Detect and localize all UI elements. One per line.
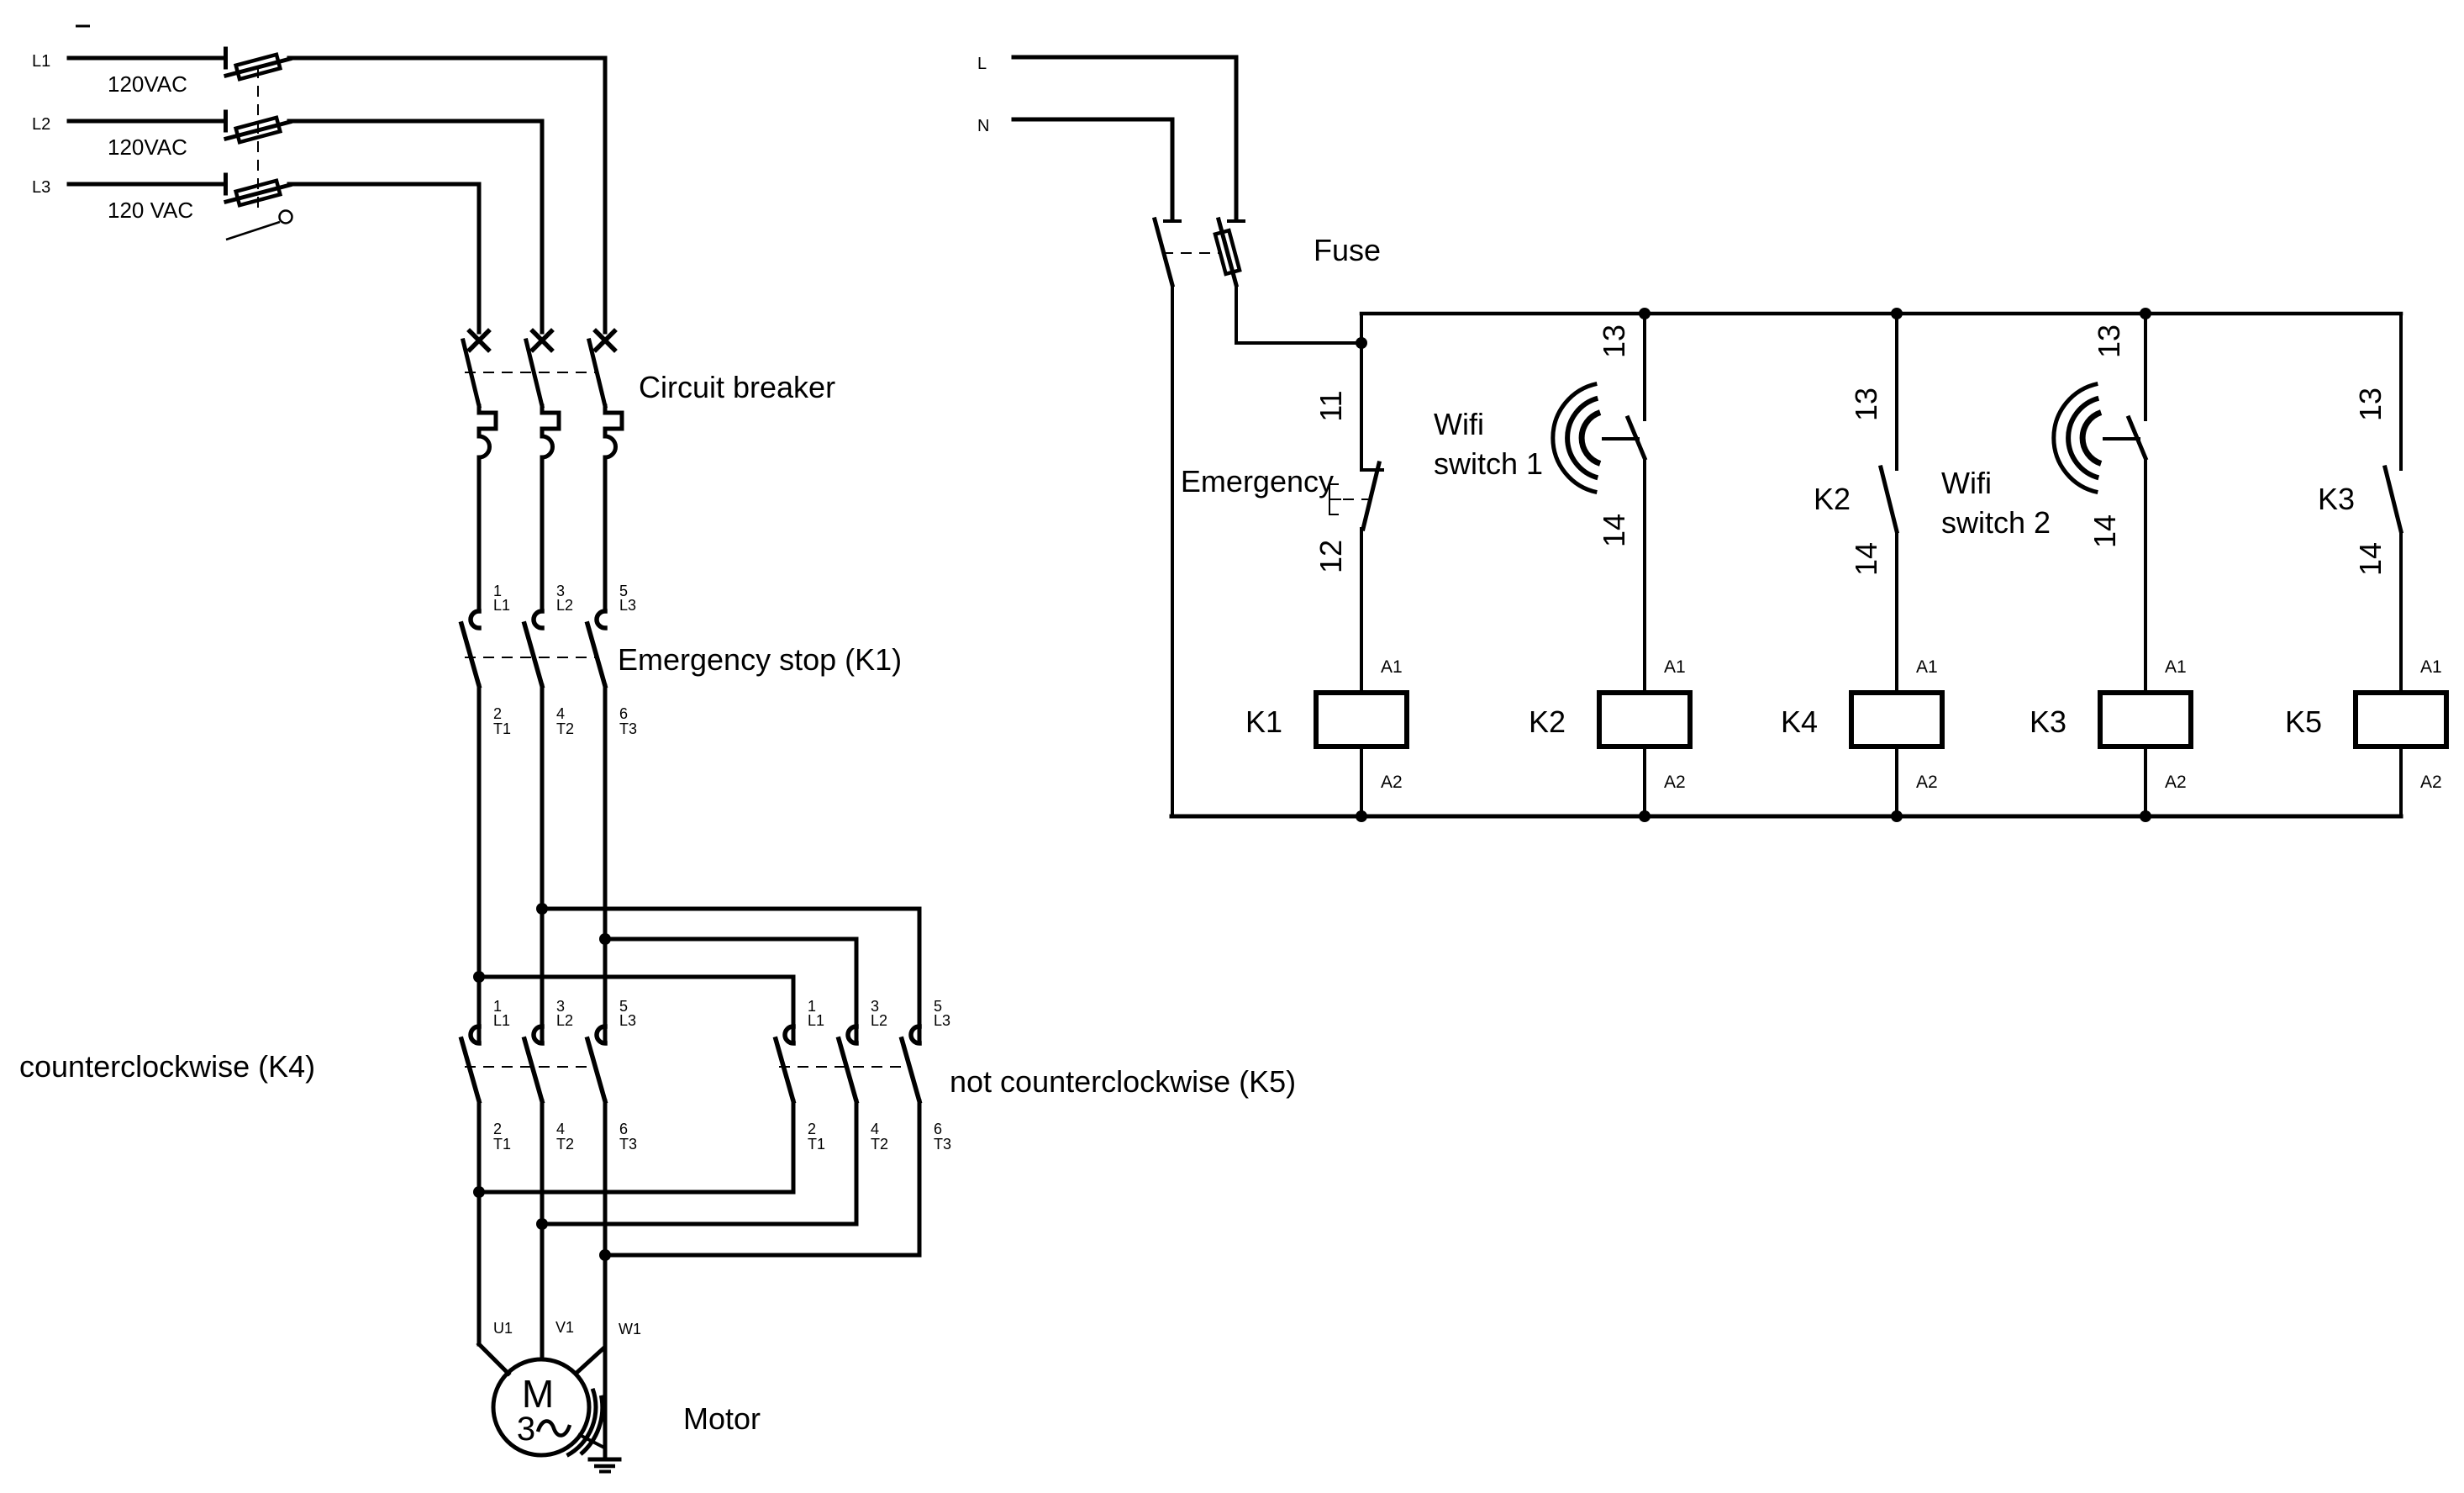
breaker linkage [465, 372, 597, 373]
node L2 [32, 115, 50, 134]
svg-text:L3: L3 [619, 597, 636, 614]
contactor K1 pole 1 (terminals 1/L1-2/T1) [461, 583, 511, 737]
wire branch 2 bottom [1643, 746, 1646, 816]
svg-text:4: 4 [556, 1121, 565, 1137]
svg-text:3: 3 [517, 1411, 535, 1448]
pin 13 [1849, 388, 1883, 421]
svg-text:A2: A2 [2165, 773, 2187, 792]
svg-text:L3: L3 [32, 178, 50, 197]
fuse-switch F2 on L2 [226, 112, 291, 142]
node L [977, 55, 987, 73]
svg-text:M: M [522, 1372, 554, 1416]
node junction L1 tap [473, 971, 485, 983]
svg-text:6: 6 [934, 1121, 942, 1137]
svg-text:A1: A1 [2420, 657, 2442, 677]
wire branch 1 bottom [1360, 746, 1363, 816]
coil K2 [1529, 657, 1690, 792]
svg-text:Motor: Motor [683, 1401, 761, 1436]
contactor K5 pole 3 (terminals 5/L3-6/T3) [902, 998, 951, 1153]
svg-text:13: 13 [1849, 388, 1883, 421]
node junction T3 [599, 1249, 611, 1261]
svg-text:A2: A2 [1381, 773, 1403, 792]
contactor K1 pole 2 (terminals 3/L2-4/T2) [524, 583, 574, 737]
stray dash mark [76, 25, 90, 28]
svg-text:120VAC: 120VAC [108, 71, 187, 97]
svg-text:T2: T2 [871, 1136, 888, 1153]
svg-text:L3: L3 [934, 1012, 950, 1029]
fuse-switch F1 on L1 [226, 49, 291, 79]
svg-text:T2: T2 [556, 720, 574, 737]
svg-text:A1: A1 [1916, 657, 1938, 677]
svg-text:13: 13 [2092, 324, 2126, 358]
svg-text:K1: K1 [1245, 704, 1282, 739]
svg-text:4: 4 [556, 705, 565, 722]
pin 14 [1849, 542, 1883, 576]
svg-text:Wifi: Wifi [1434, 407, 1484, 441]
wire L1 feed [69, 56, 225, 61]
svg-text:switch 1: switch 1 [1434, 446, 1543, 481]
fuse-switch F3 on L3 [226, 175, 291, 205]
pin 13 [2092, 324, 2126, 358]
wire branch 1 top [1360, 314, 1363, 470]
wifi switch 2 antenna [2054, 383, 2139, 492]
pin 14 [2088, 514, 2122, 548]
svg-text:switch 2: switch 2 [1941, 505, 2051, 540]
svg-text:120VAC: 120VAC [108, 135, 187, 160]
svg-text:2: 2 [493, 705, 502, 722]
pin 13 [1597, 324, 1631, 358]
svg-text:L1: L1 [493, 1012, 510, 1029]
node L3 [32, 178, 50, 197]
switch linkage [1162, 252, 1220, 254]
svg-text:K2: K2 [1814, 482, 1851, 516]
contactor K5 pole 1 (terminals 1/L1-2/T1) [776, 998, 825, 1153]
node N [977, 117, 989, 135]
label counterclockwise (K4) [19, 1049, 315, 1084]
svg-text:N: N [977, 117, 989, 135]
wire branch 3 top [1895, 314, 1898, 469]
node top rail junction [1891, 308, 1903, 319]
label Motor [683, 1401, 761, 1436]
node top rail junction [2140, 308, 2151, 319]
svg-text:Circuit breaker: Circuit breaker [639, 370, 835, 404]
wifi switch 1 antenna [1553, 383, 1638, 492]
pin 12 [1314, 540, 1348, 573]
svg-text:L3: L3 [619, 1012, 636, 1029]
wire L feed [1014, 57, 1236, 219]
coil K4 [1781, 657, 1942, 792]
node junction T1 [473, 1186, 485, 1198]
circuit breaker QF1 pole 2 [526, 331, 559, 611]
svg-text:T2: T2 [556, 1136, 574, 1153]
value label 120VAC [108, 135, 187, 160]
svg-text:not counterclockwise (K5): not counterclockwise (K5) [950, 1064, 1296, 1099]
wire branch 5 middle [2399, 531, 2403, 693]
node junction L3 tap [599, 933, 611, 945]
svg-text:14: 14 [2353, 542, 2388, 576]
svg-text:2: 2 [808, 1121, 816, 1137]
node bottom rail junction [1356, 810, 1367, 822]
svg-text:A1: A1 [2165, 657, 2187, 677]
svg-text:6: 6 [619, 1121, 628, 1137]
svg-text:A1: A1 [1664, 657, 1686, 677]
switch on N [1155, 219, 1180, 285]
wire V1 [542, 1101, 574, 1359]
pin 11 [1314, 390, 1348, 421]
value label 120VAC [108, 71, 187, 97]
contact K2 aux (NO 13-14) [1881, 467, 1897, 531]
wire L2 to breaker [289, 121, 542, 332]
contactor K5 pole 2 (terminals 3/L2-4/T2) [839, 998, 888, 1153]
wire L3 to K5 pole 2 [605, 939, 856, 1043]
wire top rail [1361, 312, 2401, 316]
svg-text:L2: L2 [556, 597, 573, 614]
motor M1 (M 3~) [493, 1359, 604, 1455]
svg-text:12: 12 [1314, 540, 1348, 573]
svg-text:L2: L2 [556, 1012, 573, 1029]
circuit breaker QF1 pole 1 [463, 331, 496, 611]
svg-text:T3: T3 [619, 1136, 637, 1153]
contactor K4 pole 1 (terminals 1/L1-2/T1) [461, 998, 511, 1153]
svg-text:A2: A2 [1664, 773, 1686, 792]
svg-text:14: 14 [2088, 514, 2122, 548]
label K2 [1814, 482, 1851, 516]
wire K5 pole3 bottom to T3 [605, 1101, 919, 1255]
svg-text:L: L [977, 55, 987, 73]
contactor K4 pole 3 (terminals 5/L3-6/T3) [587, 998, 637, 1153]
wire K1 pole 1 down [477, 686, 482, 1043]
label Wifi switch 1 [1434, 407, 1543, 481]
node junction L2 tap [536, 903, 548, 915]
label not counterclockwise (K5) [950, 1064, 1296, 1099]
svg-text:Fuse: Fuse [1314, 233, 1381, 267]
coil K1 [1245, 657, 1407, 792]
contactor K1 pole 3 (terminals 5/L3-6/T3) [587, 583, 637, 737]
label Emergency [1181, 464, 1334, 499]
wire K1 pole 3 down [603, 686, 608, 1043]
svg-text:T1: T1 [493, 720, 511, 737]
svg-text:Emergency stop (K1): Emergency stop (K1) [618, 642, 902, 677]
svg-text:L1: L1 [32, 52, 50, 71]
wire N down [1171, 285, 1174, 816]
node junction T2 [536, 1218, 548, 1230]
wire branch 2 top [1643, 314, 1646, 419]
svg-text:A1: A1 [1381, 657, 1403, 677]
svg-text:K2: K2 [1529, 704, 1566, 739]
disconnect switch linkage [226, 67, 292, 240]
wire branch 2 middle [1643, 458, 1646, 693]
node L1 [32, 52, 50, 71]
wire K1 pole 2 down [540, 686, 545, 1043]
svg-text:14: 14 [1597, 514, 1631, 547]
node feed junction [1356, 337, 1367, 349]
svg-text:T3: T3 [934, 1136, 951, 1153]
node bottom rail junction [1891, 810, 1903, 822]
wire L3 to breaker [289, 184, 479, 332]
node top rail junction [1639, 308, 1651, 319]
wire branch 3 middle [1895, 531, 1898, 693]
wire branch 1 middle [1360, 529, 1363, 693]
wifi switch 2 contact (NO 13-14) [2129, 418, 2145, 458]
wire L1 to breaker [289, 58, 605, 332]
wire W1 / PE [576, 1101, 641, 1457]
svg-text:K3: K3 [2030, 704, 2066, 739]
svg-text:K3: K3 [2318, 482, 2355, 516]
contact K3 aux (NO 13-14) [2385, 467, 2401, 531]
node bottom rail junction [1639, 810, 1651, 822]
circuit breaker QF1 pole 3 [589, 331, 622, 611]
label Wifi switch 2 [1941, 466, 2051, 540]
svg-text:counterclockwise (K4): counterclockwise (K4) [19, 1049, 315, 1084]
wire L2 feed [69, 119, 225, 124]
K4 linkage [465, 1066, 597, 1068]
pin 14 [1597, 514, 1631, 547]
svg-text:T1: T1 [808, 1136, 825, 1153]
wire bottom rail [1171, 815, 2401, 819]
svg-text:13: 13 [1597, 324, 1631, 358]
wire branch 5 bottom [2399, 746, 2403, 816]
svg-text:A2: A2 [2420, 773, 2442, 792]
svg-text:Emergency: Emergency [1181, 464, 1334, 499]
svg-text:L1: L1 [493, 597, 510, 614]
svg-text:6: 6 [619, 705, 628, 722]
svg-text:T3: T3 [619, 720, 637, 737]
coil K3 [2030, 657, 2191, 792]
wifi switch 1 contact (NO 13-14) [1628, 418, 1645, 458]
wire branch 4 bottom [2144, 746, 2147, 816]
svg-text:13: 13 [2353, 388, 2388, 421]
wire L to ladder [1236, 285, 1361, 343]
svg-text:4: 4 [871, 1121, 879, 1137]
svg-text:2: 2 [493, 1121, 502, 1137]
svg-text:120 VAC: 120 VAC [108, 198, 193, 223]
svg-text:U1: U1 [493, 1320, 513, 1337]
contactor K4 pole 2 (terminals 3/L2-4/T2) [524, 998, 574, 1153]
svg-text:L2: L2 [32, 115, 50, 134]
svg-text:K5: K5 [2285, 704, 2322, 739]
svg-text:V1: V1 [555, 1319, 574, 1336]
ground [590, 1459, 619, 1472]
svg-text:Wifi: Wifi [1941, 466, 1992, 500]
label Emergency stop (K1) [618, 642, 902, 677]
coil K5 [2285, 657, 2446, 792]
svg-text:11: 11 [1314, 390, 1348, 421]
label Fuse [1314, 233, 1381, 267]
fuse-switch on L [1215, 219, 1244, 285]
svg-text:L1: L1 [808, 1012, 824, 1029]
label K3 [2318, 482, 2355, 516]
K1 linkage [465, 657, 597, 658]
wire U1 [479, 1101, 513, 1374]
wire L1 to K5 pole 1 [479, 977, 793, 1043]
emergency stop switch S1 (NC 11-12) [1329, 463, 1382, 529]
svg-text:T1: T1 [493, 1136, 511, 1153]
svg-text:14: 14 [1849, 542, 1883, 576]
wire K5 pole1 bottom to T1 [479, 1101, 793, 1192]
svg-text:L2: L2 [871, 1012, 887, 1029]
pin 14 [2353, 542, 2388, 576]
pin 13 [2353, 388, 2388, 421]
value label 120 VAC [108, 198, 193, 223]
wire L3 feed [69, 182, 225, 187]
K5 linkage [779, 1066, 911, 1068]
label Circuit breaker [639, 370, 835, 404]
wire branch 4 middle [2144, 458, 2147, 693]
wire branch 3 bottom [1895, 746, 1898, 816]
svg-text:K4: K4 [1781, 704, 1818, 739]
wire L2 to K5 pole 3 [542, 909, 919, 1043]
wire branch 4 top [2144, 314, 2147, 419]
svg-text:W1: W1 [619, 1321, 641, 1337]
wire N feed [1014, 119, 1172, 219]
wire K5 pole2 bottom to T2 [542, 1101, 856, 1224]
svg-text:A2: A2 [1916, 773, 1938, 792]
wire branch 5 top [2399, 314, 2403, 469]
node bottom rail junction [2140, 810, 2151, 822]
